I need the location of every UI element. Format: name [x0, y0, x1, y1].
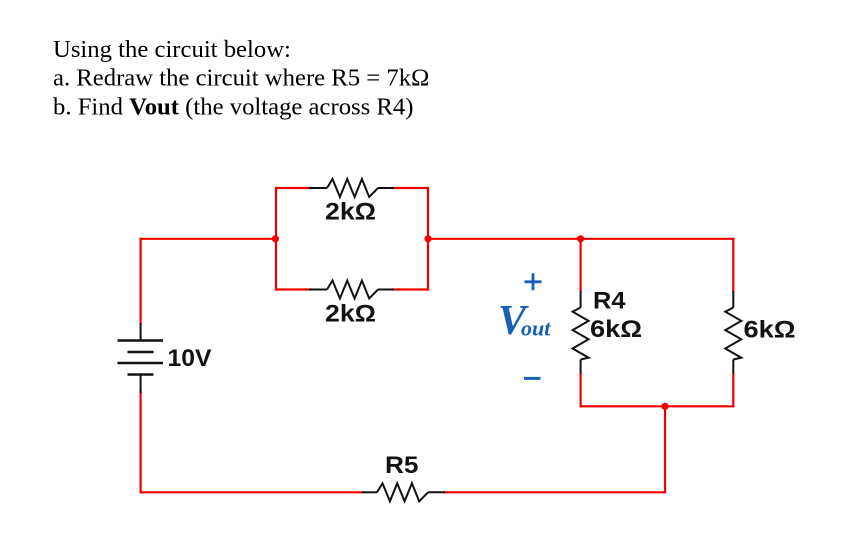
svg-text:6kΩ: 6kΩ	[590, 316, 642, 343]
svg-text:6kΩ: 6kΩ	[744, 317, 796, 344]
svg-text:R4: R4	[593, 288, 626, 315]
svg-text:10V: 10V	[168, 345, 212, 372]
svg-text:a. Redraw the circuit where R5: a. Redraw the circuit where R5 = 7kΩ	[53, 65, 429, 92]
svg-text:Using the circuit below:: Using the circuit below:	[53, 36, 291, 63]
svg-text:2kΩ: 2kΩ	[325, 301, 376, 328]
svg-text:out: out	[521, 316, 551, 341]
svg-text:2kΩ: 2kΩ	[325, 199, 376, 226]
svg-text:b. Find Vout (the voltage acro: b. Find Vout (the voltage across R4)	[53, 94, 413, 121]
svg-text:R5: R5	[385, 452, 419, 479]
